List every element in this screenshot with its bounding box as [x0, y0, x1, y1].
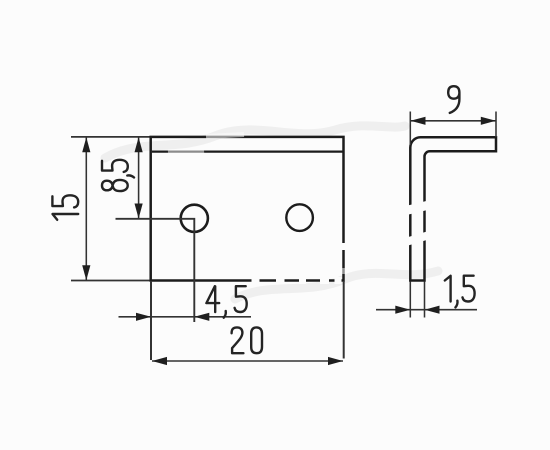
extension 1,5 right	[424, 282, 426, 318]
bend line	[152, 150, 344, 152]
text 9	[448, 86, 459, 113]
dimension 20 line	[152, 360, 343, 362]
watermark squiggle band upper	[105, 126, 438, 299]
arrow 20 right	[328, 357, 343, 365]
arrow 8,5 bottom	[135, 204, 143, 219]
dimension 4,5 line	[119, 316, 252, 318]
text 4,5	[206, 286, 246, 318]
hole 2	[286, 204, 313, 231]
arrow 1,5 left (outside, pointing right)	[395, 306, 410, 314]
arrow 9 right	[481, 117, 496, 125]
plate outline	[151, 137, 344, 281]
arrow 4,5 right (outside, pointing left)	[194, 313, 209, 321]
dimension 8,5 line	[138, 138, 140, 219]
extension left edge below (for 4,5 / 20)	[150, 281, 152, 360]
dimension 1,5 line	[376, 309, 477, 311]
hole1 center leader horizontal	[116, 219, 195, 322]
dimension 9 line	[411, 120, 496, 122]
text 1,5	[445, 276, 475, 308]
extension 1,5 left	[409, 282, 411, 318]
arrow 4,5 left (outside, pointing right)	[136, 313, 151, 321]
extension line top-left (for 15)	[71, 136, 150, 138]
arrow 1,5 right (outside, pointing left)	[425, 306, 440, 314]
arrow 15 top	[82, 137, 90, 152]
arrow 15 bottom	[82, 265, 90, 280]
extension right edge below (for 20)	[343, 281, 345, 359]
text 15	[52, 195, 78, 220]
text 8,5	[102, 160, 134, 191]
arrow 20 left	[152, 357, 167, 365]
L profile outline	[410, 137, 496, 280]
dimension 15 line	[85, 138, 87, 281]
arrow 8,5 top	[135, 137, 143, 152]
hole 1	[181, 205, 208, 232]
extension 9 right	[495, 112, 497, 138]
extension 9 left	[409, 112, 411, 146]
text 20	[232, 327, 262, 353]
watermark white breaks	[168, 135, 431, 281]
extension line bottom-left (for 15)	[71, 280, 150, 282]
arrow 9 left	[411, 117, 426, 125]
